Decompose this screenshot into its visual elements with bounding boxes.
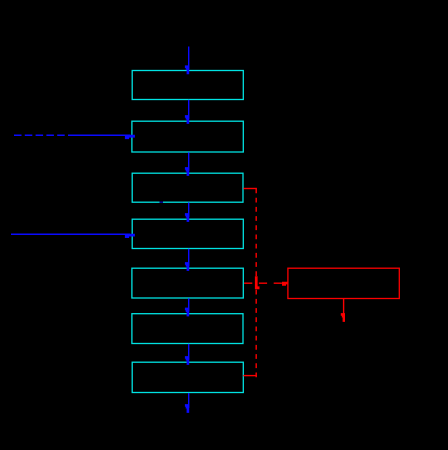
box 1 (top process box): [132, 71, 243, 100]
wire: left dashed input arrow into box 2: [14, 135, 135, 139]
box 5: [132, 268, 243, 298]
wire: box7 exit arrow (bottom): [185, 393, 189, 413]
wire: left solid input arrow into box 4: [11, 234, 135, 238]
wire: red exit arrow below red box: [341, 299, 345, 322]
wire: red connector into box7 right edge: [243, 375, 257, 377]
wire: red connector from box3 right edge: [243, 188, 257, 190]
red junction mark (up arrow glyph) on dashed line: [255, 276, 260, 289]
wire: box1 -> box2: [185, 100, 189, 124]
box 2: [132, 121, 243, 152]
wire: box3 -> box4: [185, 202, 189, 222]
red box (side process): [288, 268, 399, 298]
box 6: [132, 314, 243, 344]
wire: box5 -> box6: [185, 298, 189, 316]
red arrowhead into red box: [282, 282, 288, 286]
wire: red dashed vertical line: [255, 189, 257, 378]
wire: box4 -> box5: [185, 249, 189, 271]
box 7 (bottom process box): [132, 362, 243, 392]
wire: red dashed horizontal from box5 to red box: [244, 282, 283, 284]
box 4: [132, 219, 243, 248]
wire: box2 -> box3: [185, 152, 189, 176]
wire: box6 -> box7: [185, 344, 189, 365]
box 3: [132, 173, 243, 202]
wire: top entry arrow into box 1: [185, 47, 189, 75]
small dark-blue tick on box3 bottom edge: [160, 201, 164, 203]
